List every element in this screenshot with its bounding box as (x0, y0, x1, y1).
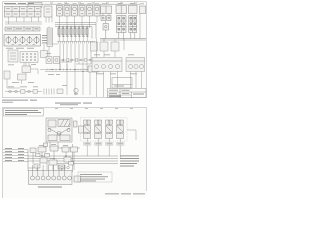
distributor module with circles (29, 165, 73, 185)
relay block B grid (116, 6, 127, 39)
page 2 frame ticks (55, 107, 133, 110)
wires from fuses down (60, 16, 98, 28)
caption above page 2 (55, 103, 92, 106)
terminal ladder right of gauges (47, 28, 53, 47)
bottom caption page 2 (105, 193, 145, 194)
relay block C grid (129, 6, 138, 39)
valve block V0 (square with cross) (44, 118, 81, 148)
module M1 left of fuses (44, 6, 52, 17)
title block text (109, 90, 144, 97)
relay block A right top (101, 6, 112, 39)
terminal lines left page 2 (3, 150, 28, 162)
side box right of distributor (74, 176, 81, 182)
mid module pair (46, 57, 60, 64)
page 1 frame (3, 2, 147, 98)
mid columns right (91, 39, 120, 58)
relay band right with circles (92, 58, 122, 72)
coil strip labels (58, 35, 88, 38)
small labels scatter page1 (8, 53, 67, 86)
gauge internal labels (12, 43, 36, 46)
sheet title text top-left (4, 2, 34, 5)
left edge component (4, 71, 20, 88)
fuse module circles (58, 7, 99, 13)
band labels row (94, 55, 137, 75)
valve bank dashed enclosure (81, 118, 128, 142)
bank left port box (79, 126, 84, 133)
bank right wire (127, 130, 136, 140)
valve unit Y1 (84, 120, 91, 139)
fuse module labels (58, 3, 100, 6)
M1 drop wires (44, 17, 58, 57)
legend labels (8, 86, 38, 89)
connector box P1 (8, 50, 18, 62)
long wires to right list (28, 144, 118, 172)
labels row under gauges (6, 47, 34, 50)
valve unit Y4 (117, 120, 124, 139)
aux box right of pin grid (41, 51, 48, 58)
relay coil strip K row (58, 28, 88, 35)
component box on bus (88, 66, 98, 72)
note box page 2 bottom (78, 172, 112, 182)
distributor label (38, 187, 62, 188)
right column labels (102, 3, 144, 4)
gauge row G1..G5 (4, 35, 41, 47)
pin grid drop wires (24, 14, 140, 67)
cluster labels (39, 144, 68, 159)
switch cluster S1 (18, 63, 39, 85)
table cell marks (6, 8, 40, 14)
rect above title block (112, 78, 132, 89)
motor symbol bottom center (74, 88, 78, 94)
valve labels (84, 143, 125, 146)
diode box D right edge (140, 6, 146, 14)
central wiring cluster page 2 (28, 146, 78, 171)
fuse modules F1-F6 top row (57, 6, 101, 17)
left table drop wires (5, 4, 45, 24)
frame tick labels (50, 2, 137, 5)
caption under page 1 (2, 100, 37, 103)
wire label list right (120, 155, 139, 166)
valve unit Y2 (95, 120, 102, 139)
valve unit Y3 (106, 120, 113, 139)
bus junction dots (51, 69, 83, 72)
component chain row center (60, 59, 95, 61)
page 2 frame (3, 108, 147, 199)
page 2 paper (3, 108, 147, 199)
relay band 2 (126, 58, 145, 72)
coil top circles (58, 26, 88, 28)
page 1 paper (3, 2, 147, 98)
header table text (7, 28, 39, 31)
corner aux box (28, 3, 42, 8)
gauge labels (42, 35, 49, 43)
valve drop wires (87, 139, 120, 159)
wires from relay bands down (97, 72, 142, 98)
pin grid connector (20, 52, 38, 63)
header table left (5, 27, 40, 31)
legend chain bottom-left page1 (5, 89, 63, 95)
top wire bus (45, 4, 140, 38)
left connector table (5, 7, 42, 18)
terminal strip X1 under right blocks (100, 39, 146, 42)
horizontal wire bus center (40, 64, 100, 96)
wires below coil strip (58, 35, 91, 72)
terminal tick bus under coils (57, 42, 95, 44)
title block (108, 89, 147, 98)
note box top-left page 2 (4, 109, 44, 117)
